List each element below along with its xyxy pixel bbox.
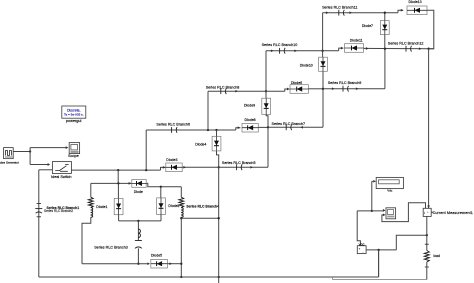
svg-text:Series RLC Branch2: Series RLC Branch2 — [44, 209, 73, 213]
svg-text:Ideal Switch: Ideal Switch — [51, 175, 71, 179]
svg-text:Series RLC Branch6: Series RLC Branch6 — [156, 123, 190, 127]
svg-text:Diode8: Diode8 — [245, 118, 256, 122]
svg-text:powergui: powergui — [66, 119, 82, 123]
svg-text:Scope: Scope — [68, 154, 79, 158]
svg-text:Series RLC Branch8: Series RLC Branch8 — [206, 85, 240, 89]
svg-text:Series RLC Branch9: Series RLC Branch9 — [328, 81, 362, 85]
svg-text:Series RLC Branch12: Series RLC Branch12 — [388, 42, 424, 46]
svg-text:Diode1: Diode1 — [96, 205, 107, 209]
svg-text:Diode9: Diode9 — [244, 103, 255, 107]
svg-text:Ts = 5e-005 s.: Ts = 5e-005 s. — [64, 112, 84, 116]
svg-text:Diode: Diode — [134, 190, 143, 194]
svg-text:Vdc: Vdc — [387, 189, 393, 193]
svg-text:Series RLC Branch5: Series RLC Branch5 — [222, 161, 256, 165]
svg-text:Series RLC Branch10: Series RLC Branch10 — [262, 43, 298, 47]
svg-text:Current Measurement1: Current Measurement1 — [433, 211, 473, 215]
svg-text:Diode3: Diode3 — [166, 158, 177, 162]
svg-text:load: load — [434, 254, 441, 258]
svg-text:Diode6: Diode6 — [291, 81, 302, 85]
svg-text:Pulse Generator: Pulse Generator — [0, 160, 19, 164]
svg-text:Diode4: Diode4 — [195, 142, 206, 146]
svg-text:Series RLC Branch3: Series RLC Branch3 — [94, 246, 128, 250]
svg-text:Series RLC Branch4: Series RLC Branch4 — [186, 204, 219, 208]
svg-text:Series RLC Branch11: Series RLC Branch11 — [322, 6, 357, 10]
svg-text:Diode11: Diode11 — [350, 39, 363, 43]
svg-text:Diode13: Diode13 — [409, 0, 422, 4]
svg-text:Diode10: Diode10 — [300, 64, 313, 68]
svg-text:Diode5: Diode5 — [151, 253, 162, 257]
svg-text:VDC: VDC — [359, 242, 365, 246]
svg-text:-: - — [363, 250, 364, 254]
svg-text:Series RLC Branch7: Series RLC Branch7 — [272, 122, 306, 126]
svg-text:Diode7: Diode7 — [362, 24, 373, 28]
